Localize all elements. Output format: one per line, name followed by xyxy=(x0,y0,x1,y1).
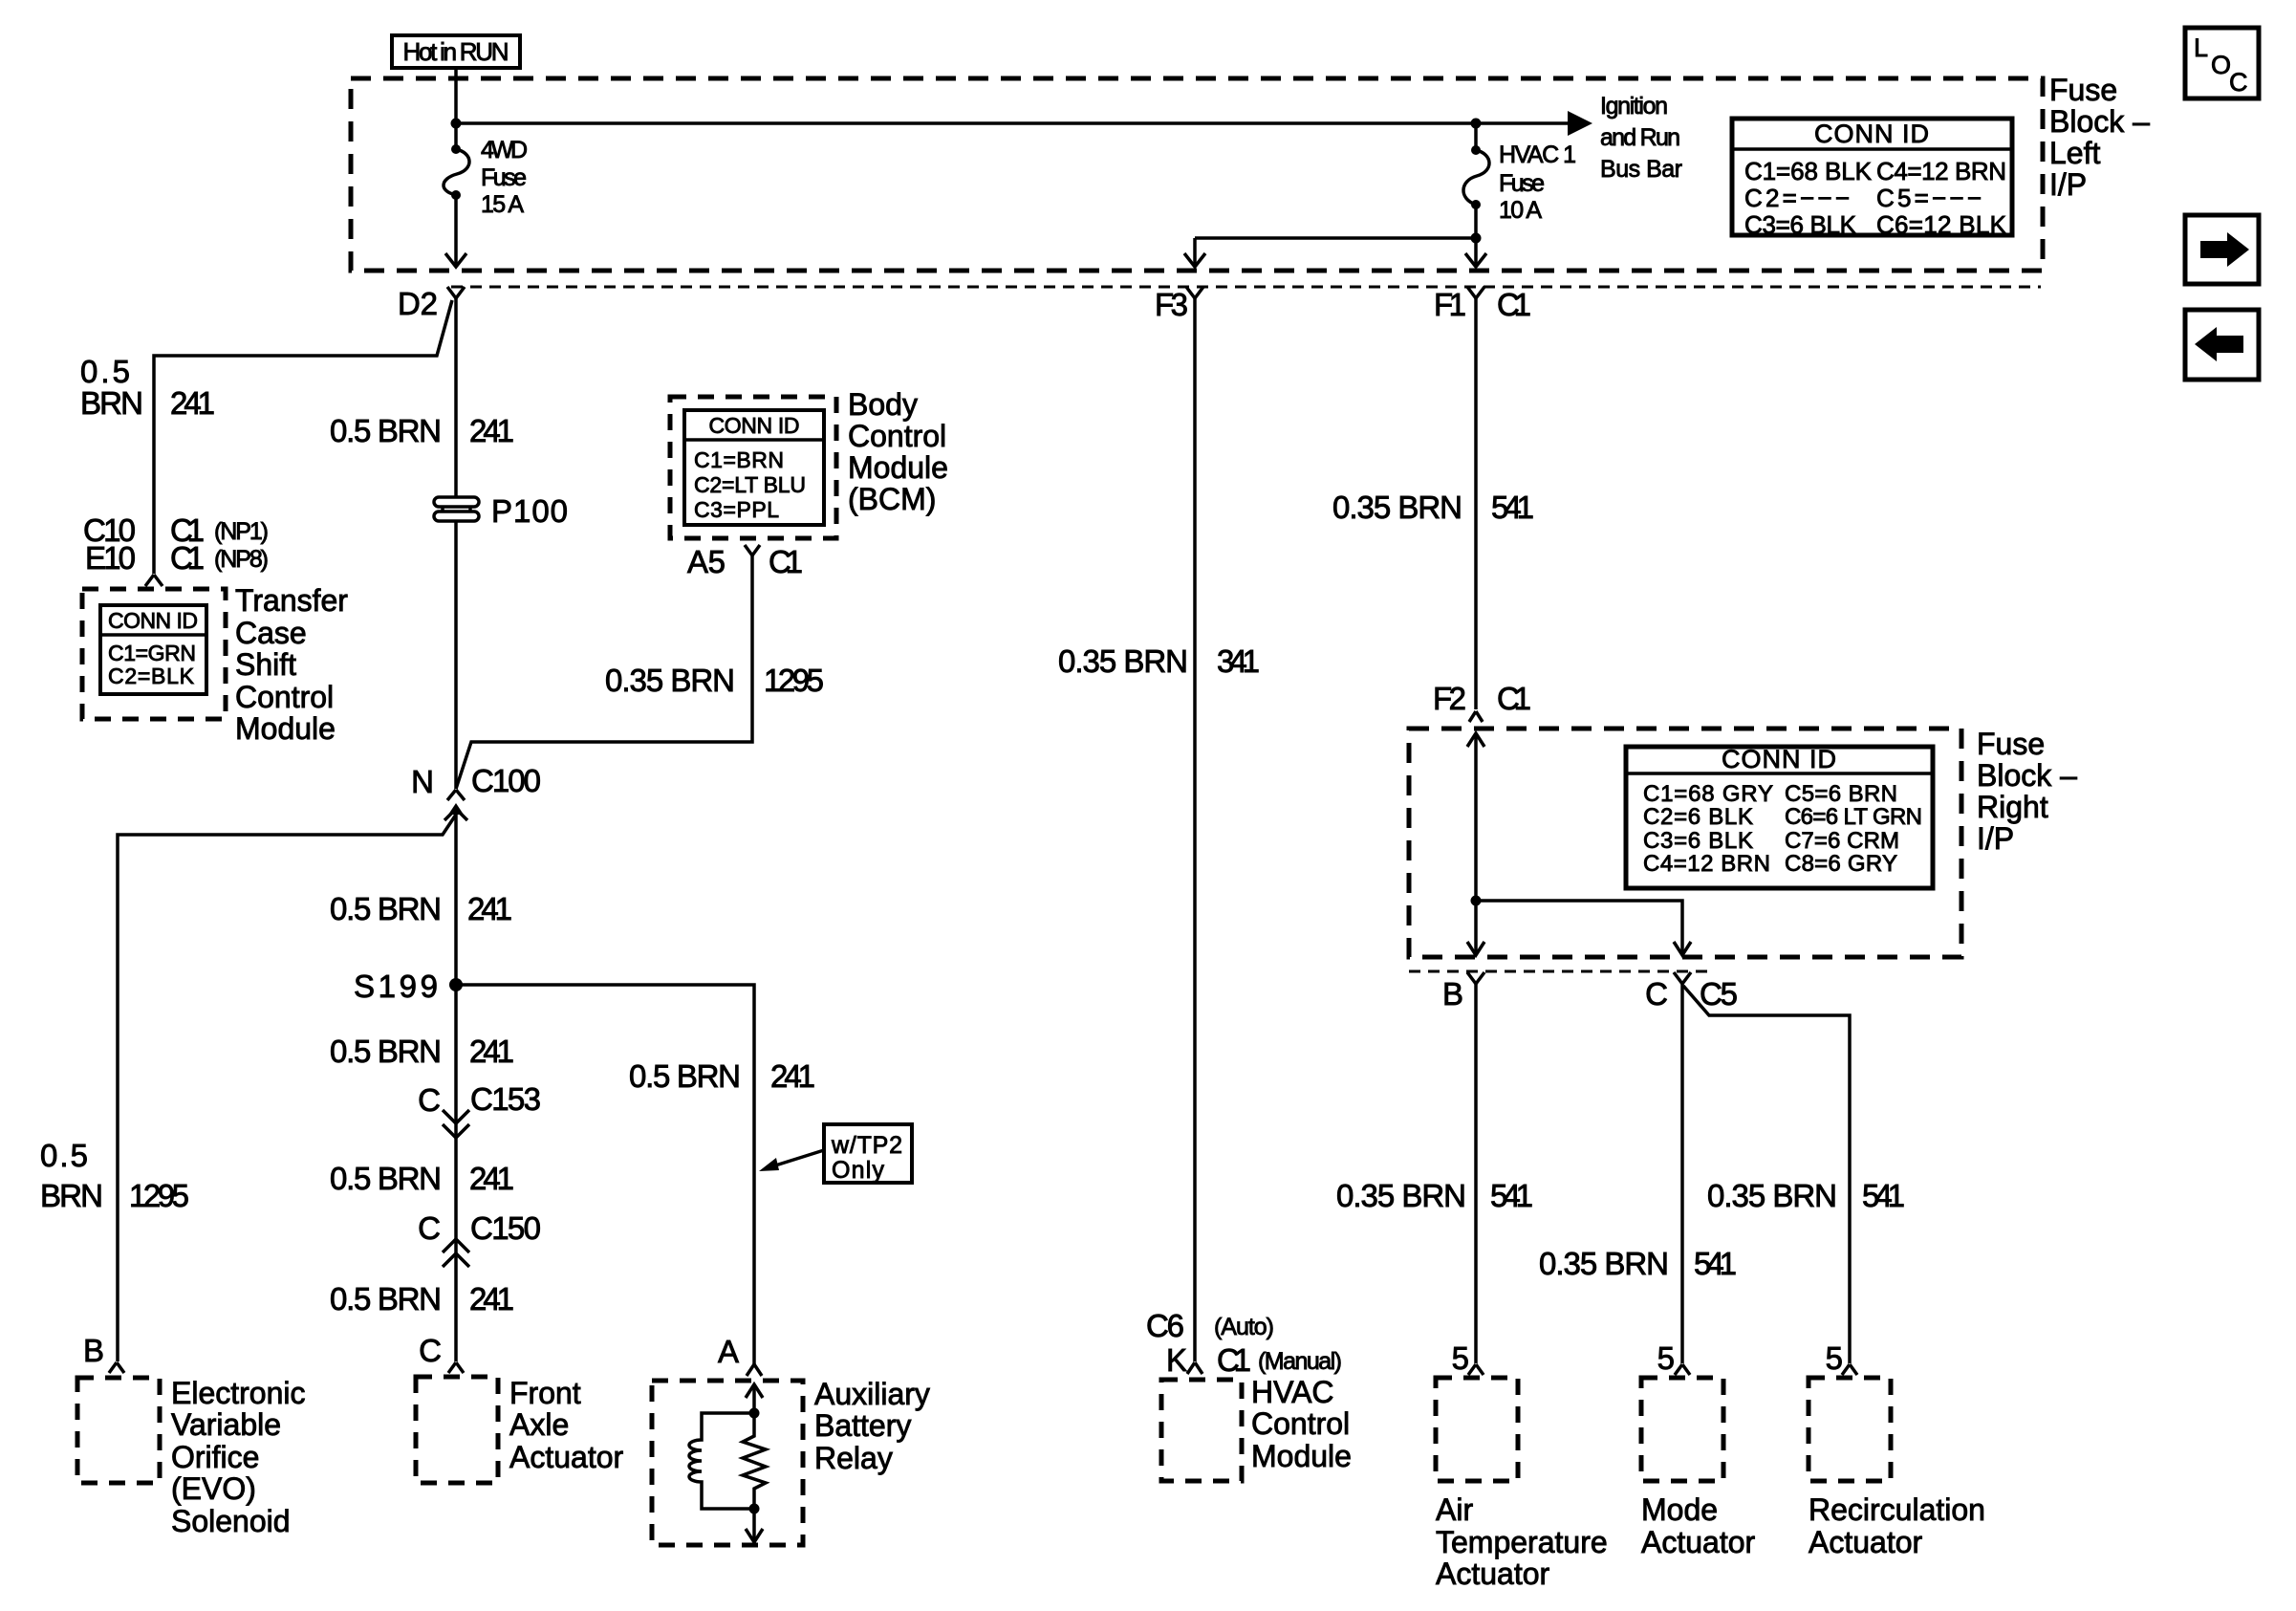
connector face dashed line below fuse block right xyxy=(1409,970,1711,973)
svg-text:Electronic: Electronic xyxy=(171,1376,306,1410)
svg-text:B: B xyxy=(83,1333,104,1368)
svg-text:Actuator: Actuator xyxy=(1641,1525,1756,1559)
svg-text:Right: Right xyxy=(1977,790,2048,824)
svg-text:S199: S199 xyxy=(354,969,438,1004)
svg-text:Module: Module xyxy=(1251,1439,1352,1473)
svg-text:Module: Module xyxy=(848,450,948,485)
Hot in RUN box xyxy=(392,35,520,68)
svg-text:C3=6 BLK: C3=6 BLK xyxy=(1643,828,1753,854)
node relay top junction xyxy=(749,1408,760,1419)
auxiliary battery relay dashed box xyxy=(652,1381,803,1545)
connector D2 xyxy=(447,287,465,298)
svg-text:CONN ID: CONN ID xyxy=(1722,745,1836,773)
svg-text:F3: F3 xyxy=(1155,287,1188,322)
mode actuator dashed box xyxy=(1641,1378,1723,1481)
svg-text:241: 241 xyxy=(469,1034,514,1069)
svg-text:Shift: Shift xyxy=(235,647,296,682)
svg-text:(NP8): (NP8) xyxy=(214,546,269,573)
wire down to B with arrow xyxy=(1474,901,1478,954)
svg-text:Hot in RUN: Hot in RUN xyxy=(403,37,509,66)
svg-text:Variable: Variable xyxy=(171,1407,281,1442)
svg-text:Actuator: Actuator xyxy=(1809,1525,1923,1559)
svg-text:HVAC: HVAC xyxy=(1251,1375,1334,1409)
svg-text:1295: 1295 xyxy=(129,1178,189,1213)
svg-text:5: 5 xyxy=(1657,1340,1675,1376)
svg-text:(EVO): (EVO) xyxy=(171,1471,256,1506)
grommet P100 xyxy=(434,497,479,507)
svg-text:C3=6 BLK: C3=6 BLK xyxy=(1744,210,1857,239)
transfer case shift control module dashed box xyxy=(82,589,226,719)
Fuse Block - Left I/P dashed box xyxy=(351,78,2043,271)
connector A5 C1 at BCM xyxy=(745,545,760,555)
svg-text:C3=PPL: C3=PPL xyxy=(694,497,779,522)
CONN ID table transfer case xyxy=(100,605,206,694)
wire F3 branch horizontal xyxy=(1195,236,1476,240)
svg-text:0.35 BRN: 0.35 BRN xyxy=(1058,643,1188,679)
svg-text:0.35 BRN: 0.35 BRN xyxy=(1539,1246,1669,1281)
relay coil branch xyxy=(689,1413,754,1509)
svg-text:(Manual): (Manual) xyxy=(1258,1348,1342,1375)
wire into fuse block right xyxy=(1474,734,1478,901)
svg-text:C: C xyxy=(418,1210,441,1246)
svg-text:Module: Module xyxy=(235,711,336,746)
svg-text:C5: C5 xyxy=(1700,976,1738,1012)
svg-text:Air: Air xyxy=(1436,1492,1473,1527)
wire F1 down to F2 xyxy=(1474,298,1478,709)
svg-text:Bus Bar: Bus Bar xyxy=(1600,156,1682,183)
svg-text:K: K xyxy=(1166,1342,1187,1378)
svg-text:C6=12 BLK: C6=12 BLK xyxy=(1876,210,2007,239)
connector face dashed line below fuse block left xyxy=(451,286,2041,289)
wire branch to transfer case: diagonal and horizontal xyxy=(154,300,452,574)
wire below HVAC fuse xyxy=(1474,205,1478,266)
svg-text:0.5 BRN: 0.5 BRN xyxy=(330,413,442,448)
arrow down at D2 xyxy=(445,253,466,267)
left arrow nav box xyxy=(2185,310,2259,380)
svg-text:C153: C153 xyxy=(470,1081,541,1117)
svg-text:Front: Front xyxy=(509,1376,581,1410)
connector F1 half xyxy=(1467,287,1484,298)
svg-text:C150: C150 xyxy=(470,1210,541,1246)
svg-text:C: C xyxy=(2229,68,2248,97)
svg-text:C1=BRN: C1=BRN xyxy=(694,447,784,472)
connector F3 half xyxy=(1186,287,1203,298)
connector F2 C1 xyxy=(1469,711,1483,722)
wire S199 branch to auxiliary battery relay xyxy=(456,985,754,1364)
EVO solenoid dashed box xyxy=(77,1378,160,1483)
svg-text:C: C xyxy=(418,1082,441,1118)
svg-text:0.5: 0.5 xyxy=(40,1138,88,1173)
HVAC control module dashed box xyxy=(1161,1380,1242,1481)
svg-text:Actuator: Actuator xyxy=(509,1440,624,1474)
svg-text:Temperature: Temperature xyxy=(1436,1525,1608,1559)
wire below 4WD fuse xyxy=(454,195,458,266)
wire relay bottom with down arrow xyxy=(752,1509,756,1541)
svg-text:L: L xyxy=(2194,33,2208,62)
fuse block right dashed box xyxy=(1409,729,1961,957)
svg-text:Recirculation: Recirculation xyxy=(1809,1492,1985,1527)
svg-text:C1: C1 xyxy=(1497,681,1531,716)
front axle actuator dashed box xyxy=(416,1377,498,1483)
LOC box xyxy=(2185,28,2259,98)
connector C C5 half xyxy=(1674,972,1691,984)
wire F3 long drop to HVAC control module xyxy=(1193,298,1197,1361)
svg-text:Case: Case xyxy=(235,616,307,650)
splice S199 xyxy=(449,978,463,991)
svg-text:BRN: BRN xyxy=(80,385,143,421)
svg-text:Fuse: Fuse xyxy=(1977,727,2045,761)
svg-text:C1=GRN: C1=GRN xyxy=(108,641,196,665)
wire P100 to C100 xyxy=(454,521,458,789)
wire main below D2 to P100 xyxy=(454,298,458,498)
node: bus junction dot at 4WD wire xyxy=(451,119,462,129)
node relay bottom junction xyxy=(749,1504,760,1514)
svg-text:Body: Body xyxy=(848,387,918,422)
svg-text:Fuse: Fuse xyxy=(1499,170,1545,197)
svg-text:BRN: BRN xyxy=(40,1178,103,1213)
svg-text:Actuator: Actuator xyxy=(1436,1557,1550,1591)
svg-text:D2: D2 xyxy=(398,286,438,321)
svg-text:5: 5 xyxy=(1826,1340,1843,1376)
arrow up inside fuse block right xyxy=(1467,733,1484,747)
svg-text:0.5 BRN: 0.5 BRN xyxy=(629,1058,741,1094)
svg-text:C2=LT BLU: C2=LT BLU xyxy=(694,472,806,497)
CONN ID table fuse block right xyxy=(1626,747,1933,888)
svg-text:F2: F2 xyxy=(1433,681,1466,716)
svg-text:1295: 1295 xyxy=(764,663,824,698)
svg-text:341: 341 xyxy=(1217,643,1260,679)
Body Control Module dashed box xyxy=(670,397,836,538)
wire C5 branch to recirculation actuator xyxy=(1683,986,1850,1363)
svg-text:241: 241 xyxy=(170,385,215,421)
connector at transfer case module xyxy=(145,575,162,586)
svg-text:Block –: Block – xyxy=(2049,104,2150,139)
svg-text:0.35 BRN: 0.35 BRN xyxy=(1707,1178,1837,1213)
svg-text:0.35 BRN: 0.35 BRN xyxy=(1336,1178,1466,1213)
svg-text:Solenoid: Solenoid xyxy=(171,1504,291,1538)
svg-text:241: 241 xyxy=(469,413,514,448)
svg-text:C1=68 GRY: C1=68 GRY xyxy=(1643,781,1773,807)
svg-text:541: 541 xyxy=(1490,1178,1533,1213)
svg-text:Control: Control xyxy=(848,419,946,453)
wire branch to C with arrow xyxy=(1476,901,1682,954)
svg-text:241: 241 xyxy=(770,1058,815,1094)
fuse HVAC 1 10A xyxy=(1471,145,1481,155)
node junction dot to F3 branch xyxy=(1471,233,1482,244)
svg-text:I/P: I/P xyxy=(1977,821,2014,856)
svg-text:P100: P100 xyxy=(491,493,568,529)
node junction in fuse block right xyxy=(1471,896,1482,906)
svg-text:C1=68 BLK: C1=68 BLK xyxy=(1744,157,1873,185)
svg-text:541: 541 xyxy=(1694,1246,1737,1281)
wire C down to mode actuator xyxy=(1680,984,1684,1363)
svg-text:C1: C1 xyxy=(1497,287,1531,322)
svg-text:C2=BLK: C2=BLK xyxy=(108,664,195,688)
svg-text:10 A: 10 A xyxy=(1499,197,1542,224)
svg-text:241: 241 xyxy=(469,1281,514,1317)
arrow down at F1 xyxy=(1465,253,1486,267)
svg-text:241: 241 xyxy=(467,891,512,926)
svg-text:C4=12 BRN: C4=12 BRN xyxy=(1643,851,1770,877)
svg-text:Only: Only xyxy=(832,1157,885,1184)
w/TP2 Only callout box xyxy=(824,1124,912,1183)
svg-text:O: O xyxy=(2211,51,2231,79)
svg-text:Fuse: Fuse xyxy=(2049,73,2117,107)
svg-text:(NP1): (NP1) xyxy=(214,518,269,545)
svg-text:C5=6 BRN: C5=6 BRN xyxy=(1785,781,1897,807)
svg-text:C7=6 CRM: C7=6 CRM xyxy=(1785,828,1899,854)
svg-text:CONN ID: CONN ID xyxy=(108,608,198,633)
svg-text:N: N xyxy=(411,764,434,799)
svg-text:541: 541 xyxy=(1491,490,1534,525)
relay resistor xyxy=(743,1413,766,1509)
svg-text:C: C xyxy=(1645,976,1668,1012)
svg-text:CONN ID: CONN ID xyxy=(1814,120,1929,148)
svg-text:Ignition: Ignition xyxy=(1600,93,1668,120)
svg-text:Block –: Block – xyxy=(1977,758,2077,793)
svg-text:C2=6 BLK: C2=6 BLK xyxy=(1643,804,1753,830)
svg-text:0.35 BRN: 0.35 BRN xyxy=(1332,490,1462,525)
svg-text:C: C xyxy=(419,1333,442,1368)
svg-text:Left: Left xyxy=(2049,136,2100,170)
connector B half xyxy=(1467,972,1484,984)
recirculation actuator dashed box xyxy=(1809,1378,1891,1481)
arrow down at F3 xyxy=(1184,253,1205,267)
wire branch to EVO: diagonal, horizontal, down xyxy=(118,815,456,1361)
svg-text:and Run: and Run xyxy=(1600,124,1680,151)
svg-text:F1: F1 xyxy=(1434,287,1466,322)
svg-text:541: 541 xyxy=(1862,1178,1905,1213)
svg-text:Fuse: Fuse xyxy=(481,164,527,191)
wire BCM down and left to C100 xyxy=(456,555,752,789)
svg-text:C100: C100 xyxy=(471,763,541,798)
svg-text:HVAC 1: HVAC 1 xyxy=(1499,142,1576,168)
arrow to Ignition and Run Bus Bar xyxy=(1568,111,1592,136)
svg-text:0.5 BRN: 0.5 BRN xyxy=(330,1281,442,1317)
svg-text:Control: Control xyxy=(235,680,334,714)
svg-text:B: B xyxy=(1442,976,1463,1012)
connector C100 male arrow xyxy=(448,803,464,815)
air temperature actuator dashed box xyxy=(1436,1378,1518,1481)
svg-text:5: 5 xyxy=(1452,1340,1469,1376)
arrow up inside relay xyxy=(746,1384,763,1398)
svg-text:(Auto): (Auto) xyxy=(1214,1314,1274,1340)
right arrow nav box xyxy=(2185,215,2259,284)
svg-text:0.5 BRN: 0.5 BRN xyxy=(330,1034,442,1069)
svg-text:Control: Control xyxy=(1251,1406,1350,1441)
connector at HVAC control module xyxy=(1187,1362,1202,1374)
CONN ID table fuse block left xyxy=(1732,119,2012,235)
connector C100 female half xyxy=(447,790,465,800)
svg-text:0.5 BRN: 0.5 BRN xyxy=(330,891,442,926)
svg-text:C1: C1 xyxy=(170,540,205,576)
svg-text:0.35 BRN: 0.35 BRN xyxy=(605,663,735,698)
wire from Hot in RUN down to 4WD fuse xyxy=(454,68,458,149)
svg-text:w/TP2: w/TP2 xyxy=(831,1132,902,1159)
svg-text:Auxiliary: Auxiliary xyxy=(814,1377,930,1411)
svg-text:A5: A5 xyxy=(687,544,726,579)
fuse 4WD 15A xyxy=(451,144,461,154)
wire HVAC fuse drop xyxy=(1474,123,1478,150)
arrow from w/TP2 box to wire xyxy=(772,1150,824,1166)
svg-text:Axle: Axle xyxy=(509,1407,569,1442)
svg-text:15 A: 15 A xyxy=(481,191,524,218)
node: bus junction dot at HVAC wire xyxy=(1471,119,1482,129)
svg-text:C1: C1 xyxy=(1217,1342,1251,1378)
svg-text:Orifice: Orifice xyxy=(171,1440,259,1474)
svg-text:Battery: Battery xyxy=(814,1408,911,1443)
svg-text:(BCM): (BCM) xyxy=(848,482,936,516)
svg-text:C6: C6 xyxy=(1146,1308,1184,1343)
svg-text:C1: C1 xyxy=(769,544,803,579)
svg-text:241: 241 xyxy=(469,1161,514,1196)
svg-text:Relay: Relay xyxy=(814,1441,893,1475)
svg-text:C6=6 LT GRN: C6=6 LT GRN xyxy=(1785,804,1922,830)
svg-text:Transfer: Transfer xyxy=(235,583,348,618)
svg-text:C8=6 GRY: C8=6 GRY xyxy=(1785,851,1897,877)
svg-text:4WD: 4WD xyxy=(481,137,528,163)
wire B down to air temperature actuator xyxy=(1474,984,1478,1363)
wire F3 drop xyxy=(1193,238,1197,266)
wire below C100 to S199 xyxy=(454,813,458,1361)
svg-text:I/P: I/P xyxy=(2049,167,2087,202)
svg-text:E10: E10 xyxy=(85,540,136,576)
CONN ID table BCM xyxy=(684,410,824,525)
svg-text:Mode: Mode xyxy=(1641,1492,1718,1527)
svg-text:A: A xyxy=(718,1334,739,1369)
svg-text:C4=12 BRN: C4=12 BRN xyxy=(1876,157,2006,185)
wire ignition bus bar horizontal xyxy=(456,121,1568,125)
svg-text:CONN ID: CONN ID xyxy=(709,413,800,438)
svg-text:0.5: 0.5 xyxy=(80,354,130,389)
svg-text:0.5 BRN: 0.5 BRN xyxy=(330,1161,442,1196)
